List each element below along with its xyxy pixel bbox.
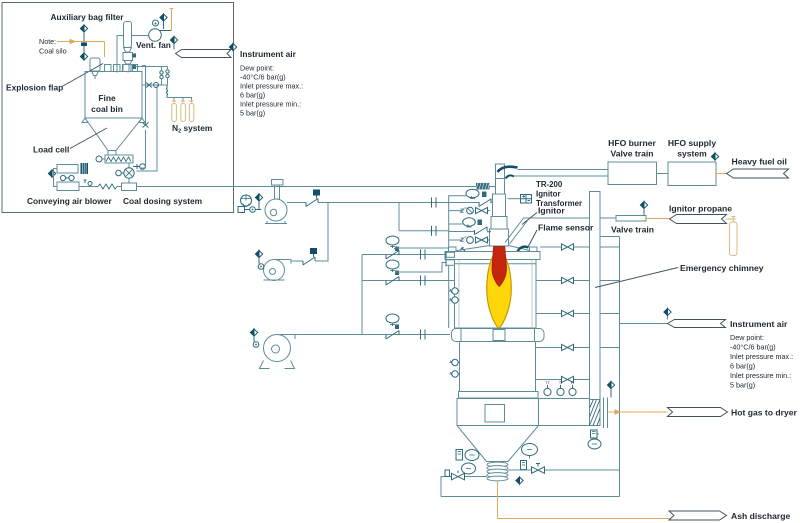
instrument-air diamond F3 bbox=[250, 329, 257, 336]
explosion flap relief vessel bbox=[90, 58, 100, 71]
burner lance tube T4 bbox=[490, 229, 509, 246]
HFO elbow (thick) bbox=[498, 167, 518, 172]
gauge left small box bbox=[456, 450, 463, 461]
small funnel 2 bbox=[124, 61, 132, 65]
valve row B bbox=[386, 277, 399, 286]
svg-text:Valve train: Valve train bbox=[611, 225, 654, 235]
wire diamond A stem bbox=[83, 33, 85, 53]
chamber lower flange band bbox=[459, 392, 539, 399]
svg-text:TR-200: TR-200 bbox=[536, 180, 563, 189]
damper actuator box bbox=[591, 430, 598, 438]
emergency vent valve 1 bbox=[540, 246, 590, 248]
load cell mark left bbox=[82, 118, 88, 123]
flame sensor hook bbox=[517, 247, 529, 252]
wire row B to chamber bbox=[362, 280, 455, 282]
gauge ellipse L1 bbox=[465, 450, 479, 461]
TT gauge bbox=[544, 388, 551, 395]
cone nozzle tick bbox=[461, 247, 466, 251]
flame inner (red) bbox=[492, 247, 507, 287]
emergency vent valve 3 bbox=[536, 313, 590, 315]
z-mark + check circle + bowtie valve row 1 bbox=[461, 207, 490, 214]
wire collector pipe bbox=[619, 237, 621, 497]
arrow Hot gas to dryer (right pointing) bbox=[668, 408, 728, 417]
propane valve train box bbox=[616, 216, 646, 222]
svg-text:-40°C/6 bar(g): -40°C/6 bar(g) bbox=[730, 343, 776, 352]
wire D1 stem bbox=[163, 22, 165, 30]
top-left Instrument air note: diamond bbox=[229, 43, 236, 50]
inline valve on side line bbox=[143, 123, 149, 128]
svg-text:Instrument air: Instrument air bbox=[730, 319, 788, 329]
chamber wall gauge 1 bbox=[452, 288, 458, 294]
coal dosing outlet box bbox=[128, 178, 130, 183]
blower cylinder 2 bbox=[57, 182, 79, 191]
wire riser to cone bbox=[449, 196, 466, 328]
wire orange note line bbox=[57, 40, 105, 58]
svg-text:Dew point:: Dew point: bbox=[240, 64, 274, 73]
vent fan outlet bbox=[160, 30, 172, 32]
chamber top flange tabs bbox=[449, 247, 457, 252]
N2 header line bbox=[142, 84, 167, 86]
svg-text:Inlet pressure min.:: Inlet pressure min.: bbox=[240, 100, 301, 109]
wire left discharge line bbox=[441, 477, 487, 497]
E2 actuator bbox=[478, 220, 483, 226]
TI gauge bbox=[557, 388, 564, 395]
flange pair row B bbox=[421, 276, 426, 286]
wire bin side line down bbox=[142, 66, 146, 126]
wire F3 outlet line bbox=[295, 334, 450, 336]
svg-text:Vent. fan: Vent. fan bbox=[136, 40, 171, 50]
svg-text:Ignitor: Ignitor bbox=[538, 206, 565, 216]
screw feeder drive gauge bbox=[96, 156, 102, 162]
fine coal bin bbox=[85, 72, 142, 119]
ash rotary valve bellows bbox=[487, 462, 508, 481]
svg-text:TT: TT bbox=[545, 381, 550, 385]
wire D2 stem bbox=[173, 45, 175, 50]
valve tick on stem bbox=[81, 43, 87, 47]
fan F1 instrument cluster bbox=[241, 195, 252, 206]
inline fittings bbox=[84, 180, 87, 183]
instrument-air diamond F1 bbox=[255, 194, 262, 201]
wire hot gas tan line bbox=[609, 410, 668, 414]
instrument-air diamond propane bbox=[640, 201, 647, 208]
fan F1 (with silencer) bbox=[265, 199, 287, 221]
valve slash upper port bbox=[479, 199, 491, 207]
airlock box 2 bbox=[123, 65, 133, 72]
damper positioner ellipse bbox=[588, 439, 601, 449]
chamber upper cylinder bbox=[455, 260, 537, 329]
N2 bottle 1 bbox=[172, 104, 177, 122]
instrument-air diamond B bbox=[80, 53, 87, 60]
auxiliary bag filter column bbox=[124, 22, 132, 48]
wire HFO tan line bbox=[716, 173, 727, 175]
instrument-air diamond F2 bbox=[255, 250, 262, 257]
svg-text:Explosion flap: Explosion flap bbox=[6, 83, 63, 93]
chamber lower cylinder bbox=[460, 342, 536, 392]
gauge R small box bbox=[521, 461, 527, 470]
HFO supply system box bbox=[668, 162, 716, 186]
wire F1 line to burner bbox=[318, 202, 493, 204]
instrument-air diamond HFO bbox=[711, 153, 718, 160]
svg-text:HFO supply: HFO supply bbox=[668, 138, 716, 148]
coal line flex coupling (hatched) bbox=[476, 183, 490, 190]
bag filter discharge funnel bbox=[124, 48, 132, 53]
wire bottom loop bbox=[441, 496, 620, 498]
gauge E2 lower port bbox=[463, 218, 476, 226]
explosion flap tabs on bin top bbox=[105, 65, 112, 72]
svg-text:5 bar(g): 5 bar(g) bbox=[730, 381, 755, 390]
valve left (bowtie w/ actuator) bbox=[445, 470, 465, 480]
arrow Heavy fuel oil (left pointing) bbox=[727, 169, 789, 178]
wire riser z-row stubs bbox=[395, 211, 475, 272]
wire coal transport line to burner bbox=[137, 186, 477, 188]
svg-text:Valve train: Valve train bbox=[611, 149, 654, 159]
svg-text:PI: PI bbox=[571, 381, 575, 385]
N2 flex connector bbox=[166, 85, 167, 98]
wires F1 cluster bbox=[245, 202, 262, 210]
svg-text:6 bar(g): 6 bar(g) bbox=[240, 91, 265, 100]
wire rungs chimney to collector bbox=[600, 237, 620, 348]
bin hopper funnel bbox=[85, 118, 142, 151]
svg-text:Ash discharge: Ash discharge bbox=[731, 511, 790, 521]
svg-text:Load cell: Load cell bbox=[33, 145, 69, 155]
instrument-air diamond D2 bbox=[170, 36, 177, 43]
blower suction pipe bbox=[54, 169, 58, 187]
vent fan scroll bbox=[149, 29, 162, 42]
conveying air blower cylinder 1 bbox=[57, 165, 78, 174]
svg-text:Inlet pressure max.:: Inlet pressure max.: bbox=[240, 82, 303, 91]
svg-text:Hot gas to dryer: Hot gas to dryer bbox=[731, 408, 798, 418]
wire between HFO boxes bbox=[657, 173, 669, 175]
wire propane tan line bbox=[646, 218, 670, 220]
wire N2 purge line down bbox=[137, 85, 158, 171]
gauge ellipse R1 bbox=[522, 444, 538, 456]
N2 bottle 3 bbox=[189, 104, 194, 122]
z-mark + check circle + bowtie valve row 2 bbox=[461, 237, 490, 244]
emergency vent valve 5 bbox=[536, 379, 590, 381]
wire diamond stem bbox=[643, 210, 645, 216]
burner lance tube T2 bbox=[493, 194, 506, 217]
hot gas damper vanes bbox=[604, 398, 608, 429]
svg-text:N2 system: N2 system bbox=[172, 123, 212, 135]
fan F3 bbox=[264, 335, 291, 362]
vent fan motor bbox=[153, 20, 159, 26]
svg-text:Emergency chimney: Emergency chimney bbox=[680, 263, 764, 273]
wire vertical manifold x362 bbox=[361, 255, 363, 335]
coal rotary valve bbox=[128, 163, 130, 168]
emergency chimney bbox=[590, 192, 601, 400]
wire orange vent discharge bbox=[170, 9, 174, 31]
HFO elbow 2 bbox=[506, 175, 515, 178]
wire explosion flap pointer bbox=[62, 64, 103, 87]
svg-text:Heavy fuel oil: Heavy fuel oil bbox=[732, 157, 787, 167]
E1 actuator bbox=[482, 192, 487, 198]
chamber bottom box bbox=[457, 399, 539, 426]
flange pair row C bbox=[421, 330, 426, 340]
airlock box 1 bbox=[123, 53, 133, 61]
svg-text:-40°C/6 bar(g): -40°C/6 bar(g) bbox=[240, 73, 286, 82]
chamber wall gauge 2 bbox=[452, 297, 458, 303]
wire bottle connection bbox=[727, 218, 734, 220]
flange pair on branch bbox=[432, 226, 437, 236]
wire duct to chimney top edge bbox=[539, 398, 590, 400]
manhole box bbox=[493, 330, 505, 341]
wire duct to chimney bottom edge bbox=[539, 425, 590, 427]
valve row C bbox=[386, 331, 399, 340]
flange pair row A bbox=[421, 250, 426, 260]
svg-text:Coal dosing system: Coal dosing system bbox=[123, 196, 202, 206]
wire flex to lance bbox=[490, 186, 496, 188]
blower motor (striped) bbox=[81, 163, 89, 174]
wire emergency chimney pointer bbox=[595, 268, 678, 288]
HFO burner valve train box bbox=[608, 162, 657, 185]
wire instrument air line bbox=[620, 317, 669, 324]
svg-text:Instrument air: Instrument air bbox=[240, 49, 297, 59]
chamber top ring bbox=[445, 252, 540, 260]
instrument-air diamond (damper) bbox=[607, 381, 614, 388]
N2 bottle valves (orange) bbox=[172, 100, 194, 103]
N2 bottle 2 bbox=[181, 104, 186, 122]
chamber top second flange line bbox=[455, 263, 537, 265]
flame outer (yellow) bbox=[487, 250, 512, 329]
wire column to vent fan bbox=[117, 36, 149, 73]
chamber top cone bbox=[451, 246, 534, 252]
valve V2 bbox=[303, 248, 317, 265]
svg-text:Ignitor: Ignitor bbox=[536, 190, 561, 199]
svg-text:Coal silo: Coal silo bbox=[39, 47, 67, 56]
fan F2 bbox=[264, 260, 285, 281]
N2 manifold bbox=[167, 98, 192, 103]
inset box frame bbox=[2, 3, 234, 213]
svg-text:Ignitor propane: Ignitor propane bbox=[669, 204, 732, 214]
instrument-air diamond (instr air arrow) bbox=[664, 308, 671, 315]
wire HFO double line to valve train bbox=[514, 170, 608, 177]
svg-text:Fine: Fine bbox=[98, 93, 116, 103]
svg-text:coal bin: coal bin bbox=[91, 104, 123, 114]
chamber left stub 1 bbox=[446, 251, 455, 258]
emergency vent valve 2 bbox=[536, 280, 590, 282]
wire airlock to bin bbox=[127, 72, 129, 73]
svg-text:TI: TI bbox=[559, 381, 562, 385]
chamber lower wall gauge 2 bbox=[452, 371, 458, 377]
wire transformer pointer bbox=[508, 198, 521, 200]
instrument-air diamond A bbox=[80, 25, 87, 32]
chamber inner wall lines bbox=[459, 260, 532, 329]
svg-text:HFO burner: HFO burner bbox=[608, 138, 656, 148]
chamber mid ring bbox=[452, 329, 545, 342]
PI gauge bbox=[569, 388, 576, 395]
valve V1 (butterfly w/ actuator) bbox=[306, 190, 320, 207]
gauge row A bbox=[386, 236, 399, 245]
flexible hose (zigzag) bbox=[98, 184, 117, 189]
arrow Ash discharge (right pointing) bbox=[669, 511, 727, 520]
F3 gauge bbox=[253, 342, 259, 348]
F1 small box instrument bbox=[238, 207, 245, 213]
svg-text:5 bar(g): 5 bar(g) bbox=[240, 109, 265, 118]
wire ignitor pointer bbox=[522, 213, 537, 225]
gauge ellipse L2 bbox=[462, 463, 476, 474]
svg-text:Flame sensor: Flame sensor bbox=[538, 223, 594, 233]
wire flame sensor pointer bbox=[528, 230, 537, 247]
arrow Instrument air (left pointing) bbox=[668, 320, 726, 328]
svg-text:Inlet pressure max.:: Inlet pressure max.: bbox=[730, 352, 793, 361]
svg-text:6 bar(g): 6 bar(g) bbox=[730, 362, 755, 371]
chimney base damper (hatched) bbox=[590, 400, 601, 426]
instrument-air diamond ash bbox=[516, 477, 523, 484]
svg-text:Conveying air blower: Conveying air blower bbox=[27, 196, 112, 206]
chamber left stub 2 bbox=[446, 259, 455, 267]
instrument-air diamond blower bbox=[48, 170, 55, 177]
screw feeder bbox=[105, 155, 133, 163]
vent outlet arrow (left pointing) bbox=[176, 50, 232, 58]
rotary valve motor box bbox=[133, 164, 140, 169]
load cell mark right bbox=[139, 118, 145, 123]
gauge row B bbox=[386, 260, 399, 269]
svg-text:Inlet pressure min.:: Inlet pressure min.: bbox=[730, 371, 791, 380]
wire branch riser to lower burner port bbox=[399, 203, 449, 231]
N2 check valve columns bbox=[135, 67, 168, 71]
F2 gauge bbox=[258, 264, 264, 270]
wire blower to flex bbox=[79, 186, 98, 188]
wire F1 outlet bbox=[287, 202, 306, 204]
wire ash tan line bbox=[498, 481, 670, 519]
gauge row C bbox=[386, 314, 399, 323]
svg-text:Dew point:: Dew point: bbox=[730, 333, 764, 342]
chamber lower wall gauge 1 bbox=[452, 359, 458, 365]
blower gauges bbox=[60, 175, 65, 180]
svg-text:Note:: Note: bbox=[39, 37, 56, 46]
ignitor tube (diagonal) bbox=[505, 218, 528, 245]
flange pair on F1 line bbox=[432, 198, 437, 208]
valve row A (slash) bbox=[386, 251, 399, 260]
TR-200 transformer symbol bbox=[521, 195, 532, 204]
svg-text:Auxiliary bag filter: Auxiliary bag filter bbox=[50, 12, 124, 22]
wire right discharge line bbox=[508, 469, 620, 471]
inspection window bbox=[485, 405, 505, 423]
chamber bottom funnel bbox=[457, 426, 539, 462]
wire propane line to ignitor bbox=[524, 217, 616, 219]
valve right (bowtie w/ actuator) bbox=[532, 464, 545, 474]
instrument-air diamond D1 bbox=[160, 14, 167, 21]
F1 gauge circle bbox=[250, 207, 256, 213]
wire F2 riser joining F1 line bbox=[315, 203, 328, 262]
rotary valve gauge bbox=[116, 170, 122, 176]
wire F2 outlet bbox=[291, 260, 303, 262]
wire flex to dosing box bbox=[117, 186, 122, 188]
gauge E1 on coal line bbox=[466, 189, 479, 198]
arrow Ignitor propane (left pointing) bbox=[670, 215, 727, 224]
wire row A to chamber stub bbox=[362, 254, 446, 256]
burner lance tube T3 bbox=[491, 217, 507, 230]
wire load cell pointer bbox=[70, 128, 107, 149]
emergency vent valve 4 bbox=[536, 347, 590, 349]
svg-text:system: system bbox=[677, 149, 707, 159]
hopper neck bbox=[108, 151, 116, 156]
N2 header valve bbox=[146, 83, 152, 88]
valve slash lower port bbox=[475, 227, 492, 235]
burner lance tube T1 bbox=[496, 164, 505, 194]
propane bottle bbox=[730, 217, 738, 256]
